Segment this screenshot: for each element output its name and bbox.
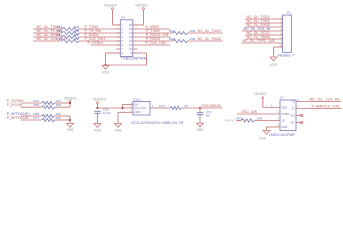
svg-text:ECS-327MVATX-0985-CN-TR: ECS-327MVATX-0985-CN-TR <box>132 120 184 125</box>
wire net P_ZOOM+ <box>21 102 42 104</box>
resistor R61 <box>62 31 80 34</box>
ground VSS at C72 <box>197 123 204 127</box>
wire net NC_GL_TXPD_1V8 to P2 pin 7 <box>241 42 278 44</box>
svg-text:0.1uF: 0.1uF <box>103 111 111 115</box>
wire net P_CLK_1V8 <box>137 44 170 46</box>
svg-text:R67: R67 <box>169 29 175 33</box>
svg-text:VDD3V3: VDD3V3 <box>254 92 267 96</box>
svg-text:NC_GL_CLK_IN: NC_GL_CLK_IN <box>310 97 340 102</box>
connector P2 <box>278 11 291 53</box>
svg-text:NC: NC <box>206 113 211 117</box>
resistor R74 <box>42 101 55 104</box>
capacitor C72 <box>197 113 203 115</box>
wire net P_RXD0 right of U4 <box>137 40 172 42</box>
wire enable to R75 <box>237 120 242 122</box>
junction pull-down bus <box>69 119 71 121</box>
power port VDD3V3 bottom-left <box>64 97 77 103</box>
wire VDD3V3 to OSC1 VCC <box>97 104 133 108</box>
junction pull-up bus <box>69 102 71 104</box>
svg-text:VSS: VSS <box>259 137 267 141</box>
svg-text:Header 7: Header 7 <box>278 52 295 57</box>
capacitor C55 <box>94 111 100 113</box>
wire net NC_GL_RXD0 left segment <box>33 36 62 38</box>
svg-text:R69: R69 <box>169 37 175 41</box>
wire net P_RXD0_1V8 <box>137 36 170 38</box>
no-connect pin 2 of U7 <box>296 122 301 124</box>
wire VDD3V3 to U4 pin 16 <box>133 10 144 25</box>
wire net NC_GL_TX_EN left segment <box>33 32 62 34</box>
svg-text:VSS: VSS <box>102 71 110 75</box>
resistor R60 <box>62 27 80 30</box>
wire net P_MISO right of U4 <box>137 28 170 30</box>
wire VDD3V3 to U4 pin 1 <box>113 10 121 25</box>
wire net NC_GL_RXD0 to label <box>188 40 223 42</box>
wire net NC_GL_TXD0 left segment <box>33 28 62 30</box>
no-connect cross pin 2 <box>300 121 303 124</box>
resistor R64 <box>42 106 55 109</box>
wire C72 to ground <box>199 115 201 123</box>
junction at C72 <box>199 107 201 109</box>
svg-text:10K: 10K <box>55 103 61 107</box>
wire net NC_GL_CLK_OUT left segment <box>33 40 62 42</box>
svg-text:R63: R63 <box>57 37 63 41</box>
svg-text:VDD3V3: VDD3V3 <box>135 4 148 8</box>
wire P_TXD0 to U4 <box>80 28 121 30</box>
svg-text:VSS: VSS <box>270 63 278 67</box>
svg-text:P2: P2 <box>287 11 291 15</box>
wire junction to C72 <box>199 108 201 113</box>
wire R68 to bus <box>55 115 71 117</box>
svg-text:NC_GL_TXD0: NC_GL_TXD0 <box>198 29 221 33</box>
resistor R77 <box>42 118 55 121</box>
wire OSC1 GND to ground <box>118 112 133 123</box>
IC U7 clock buffer <box>271 96 296 131</box>
wire OSC1 EN tie <box>123 105 134 109</box>
wire net NC_GL_CLK_IN to P2 pin 4 <box>242 30 278 32</box>
wire P_TX_EN to U4 <box>80 32 121 34</box>
wire net P_CTRL0 to U4 pin 6 <box>91 44 120 46</box>
svg-text:P_ZOOM-: P_ZOOM- <box>7 103 24 107</box>
wire P_CLK_OUT to U4 <box>80 40 121 42</box>
ground VSS at U7 <box>263 130 270 134</box>
wire C55 to ground <box>96 113 98 123</box>
ground VSS bottom-left <box>67 123 74 127</box>
wire net NC_GL_RXD0 to P2 pin 3 <box>245 26 278 28</box>
svg-text:NC_GL_TXPD_1V8: NC_GL_TXPD_1V8 <box>243 39 275 43</box>
power port VDD3V3 left of U4 <box>104 4 117 10</box>
svg-text:VDD3V3: VDD3V3 <box>104 4 117 8</box>
ground VSS at C55 <box>94 124 101 128</box>
svg-text:VSS: VSS <box>94 129 102 133</box>
svg-text:R71: R71 <box>160 104 166 108</box>
wire net P_ZOOM- <box>21 106 42 108</box>
resistor R68 <box>42 114 55 117</box>
svg-text:LMK1C1102PWR: LMK1C1102PWR <box>269 133 295 137</box>
svg-text:EN: EN <box>135 103 139 107</box>
svg-text:P_CTRL0: P_CTRL0 <box>88 41 104 45</box>
svg-text:VDD: VDD <box>282 106 288 110</box>
wire U4 GND left pin 8 down <box>106 53 121 65</box>
svg-text:R64: R64 <box>34 103 40 107</box>
wire U4 GND right pin 9 down <box>106 53 147 65</box>
wire R71 to OSC32KIN <box>182 107 223 109</box>
wire pull-down bus <box>69 116 71 123</box>
resistor R75 <box>241 119 255 122</box>
wire VDD3V3 pull-up bus <box>69 103 71 108</box>
junction at C55 <box>96 107 98 109</box>
svg-text:U4: U4 <box>121 15 125 19</box>
ground VSS under U4 <box>102 65 109 69</box>
svg-text:22R: 22R <box>73 37 79 41</box>
svg-text:GND: GND <box>282 125 288 129</box>
svg-text:P_AMPCLK_1V8: P_AMPCLK_1V8 <box>312 105 340 109</box>
wire net NC_GL_TXD0 to P2 pin 1 <box>245 18 278 20</box>
svg-text:Y0: Y0 <box>291 100 295 104</box>
IC U4 level shifter <box>116 15 138 56</box>
wire net P_AFFOCUS+ <box>21 115 42 117</box>
svg-text:VSS: VSS <box>196 128 204 132</box>
wire R75 to U7 1G <box>255 120 281 122</box>
svg-text:NC_GL_RXD0: NC_GL_RXD0 <box>198 37 222 41</box>
svg-text:CLKIN: CLKIN <box>282 112 290 116</box>
svg-text:10K: 10K <box>55 116 61 120</box>
resistor R71 <box>170 106 182 109</box>
resistor R63 <box>62 39 80 42</box>
svg-text:OSC_32K: OSC_32K <box>241 110 258 114</box>
svg-text:U7: U7 <box>280 96 284 100</box>
junction under U4 <box>104 64 106 66</box>
wire net NC_GL_SCL0 to P2 pin 5 <box>245 34 278 36</box>
svg-text:NC: NC <box>291 121 295 125</box>
svg-text:VSS: VSS <box>114 129 122 133</box>
svg-text:VDD3V3: VDD3V3 <box>64 97 77 101</box>
ground VSS at OSC1 GND <box>115 124 122 128</box>
wire U7 Y0 output <box>296 101 342 103</box>
oscillator OSC1 <box>131 97 155 115</box>
wire R74 to bus <box>55 102 71 104</box>
svg-text:1G: 1G <box>282 119 285 123</box>
wire net NC_GL_SDA0 to P2 pin 6 <box>245 38 278 40</box>
svg-text:22R: 22R <box>190 29 196 33</box>
svg-text:P_CLK_1V8: P_CLK_1V8 <box>146 41 166 45</box>
svg-text:Y1: Y1 <box>291 107 295 111</box>
svg-text:NC: NC <box>291 114 295 118</box>
svg-text:OSC1: OSC1 <box>133 97 141 101</box>
wire OSC1 OUT to R71 <box>155 107 170 109</box>
svg-text:VDD3V3: VDD3V3 <box>93 97 106 101</box>
power port VDD3V3 clock buffer <box>254 92 267 99</box>
power port VDD3V3 right of U4 <box>135 4 148 10</box>
svg-text:TXB0108PWR: TXB0108PWR <box>121 55 147 60</box>
svg-text:R77: R77 <box>34 116 40 120</box>
svg-text:R75: R75 <box>237 116 243 120</box>
svg-text:OSC32KIN: OSC32KIN <box>201 103 221 108</box>
svg-text:VCC OUT: VCC OUT <box>135 106 147 110</box>
wire P_RXD0 to U4 <box>80 36 121 38</box>
svg-text:GND: GND <box>135 110 141 114</box>
wire VDD3V3 to U7 VDD <box>263 99 280 108</box>
resistor R62 <box>62 35 80 38</box>
wire net NC_GL_TXD0 to label <box>188 32 223 34</box>
wire net P_TXD0 right of U4 <box>137 32 172 34</box>
power port VDD3V3 oscillator <box>93 97 106 103</box>
wire net NC_GL_TXD1 to P2 pin 2 <box>245 22 278 24</box>
wire U7 Y1 output <box>296 108 342 110</box>
wire U7 GND to ground <box>267 127 281 130</box>
wire R77 to bus <box>55 119 71 121</box>
wire R64 to bus <box>55 106 71 108</box>
no-connect cross pin 5 <box>300 114 303 117</box>
resistor R67 <box>173 31 189 34</box>
resistor R69 <box>173 39 189 42</box>
svg-text:22R: 22R <box>190 37 196 41</box>
svg-text:22R: 22R <box>257 116 263 120</box>
svg-text:VSS: VSS <box>66 128 74 132</box>
wire P2 pin 8 to ground <box>274 47 283 57</box>
svg-text:P_AFFOCUS-: P_AFFOCUS- <box>7 116 31 120</box>
no-connect pin 5 of U7 <box>296 115 301 117</box>
wire net OSC_32K to U7 CLKIN <box>237 113 280 115</box>
junction EN tie <box>121 107 123 109</box>
ground VSS under P2 <box>270 57 277 61</box>
wire net P_AFFOCUS- <box>21 119 42 121</box>
